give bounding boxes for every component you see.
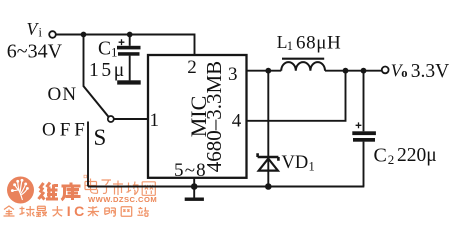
svg-text:o: o bbox=[401, 66, 407, 80]
svg-text:3.3V: 3.3V bbox=[411, 61, 449, 82]
svg-text:1: 1 bbox=[111, 45, 118, 60]
svg-text:C: C bbox=[98, 39, 111, 60]
svg-text:C: C bbox=[374, 144, 387, 166]
svg-text:2: 2 bbox=[388, 152, 395, 167]
svg-text:OFF: OFF bbox=[42, 120, 89, 141]
svg-text:ON: ON bbox=[48, 84, 78, 105]
svg-text:WWW.DZSC.COM: WWW.DZSC.COM bbox=[88, 195, 157, 204]
svg-text:6~34V: 6~34V bbox=[7, 40, 63, 62]
svg-text:1: 1 bbox=[150, 110, 160, 131]
svg-text:220μ: 220μ bbox=[397, 145, 437, 166]
svg-text:3: 3 bbox=[228, 64, 238, 85]
svg-text:IC: IC bbox=[67, 203, 88, 219]
svg-text:4: 4 bbox=[232, 111, 242, 132]
svg-text:1: 1 bbox=[287, 39, 293, 53]
svg-text:15μ: 15μ bbox=[89, 60, 127, 81]
svg-text:4680–3.3MB: 4680–3.3MB bbox=[202, 61, 226, 172]
svg-text:68μH: 68μH bbox=[296, 33, 341, 54]
svg-text:VD: VD bbox=[282, 153, 309, 173]
svg-text:2: 2 bbox=[187, 57, 197, 78]
svg-text:1: 1 bbox=[309, 160, 315, 174]
svg-text:i: i bbox=[39, 26, 43, 40]
svg-text:S: S bbox=[94, 125, 107, 150]
